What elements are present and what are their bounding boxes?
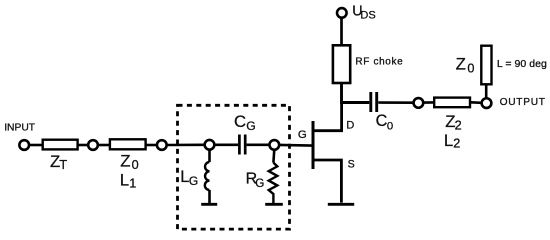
svg-text:G: G (246, 119, 255, 133)
svg-text:0: 0 (467, 62, 474, 76)
svg-text:L: L (444, 131, 453, 150)
svg-text:G: G (255, 177, 264, 190)
svg-text:L = 90 deg: L = 90 deg (497, 58, 547, 70)
svg-text:2: 2 (453, 137, 460, 151)
svg-text:RF choke: RF choke (355, 56, 403, 67)
svg-text:1: 1 (129, 176, 136, 190)
svg-text:L: L (120, 171, 129, 190)
svg-text:C: C (376, 112, 388, 130)
svg-text:Z: Z (120, 151, 130, 170)
svg-text:0: 0 (387, 120, 393, 132)
svg-text:0: 0 (132, 158, 139, 172)
svg-text:S: S (348, 159, 355, 171)
svg-text:D: D (346, 119, 354, 131)
svg-text:Z: Z (456, 55, 466, 74)
svg-text:T: T (59, 157, 67, 172)
svg-text:OUTPUT: OUTPUT (500, 97, 546, 108)
svg-text:DS: DS (360, 10, 375, 22)
svg-text:2: 2 (455, 119, 462, 133)
svg-text:C: C (234, 112, 246, 131)
svg-text:G: G (298, 129, 307, 141)
svg-text:G: G (189, 174, 198, 188)
svg-text:INPUT: INPUT (4, 123, 36, 134)
